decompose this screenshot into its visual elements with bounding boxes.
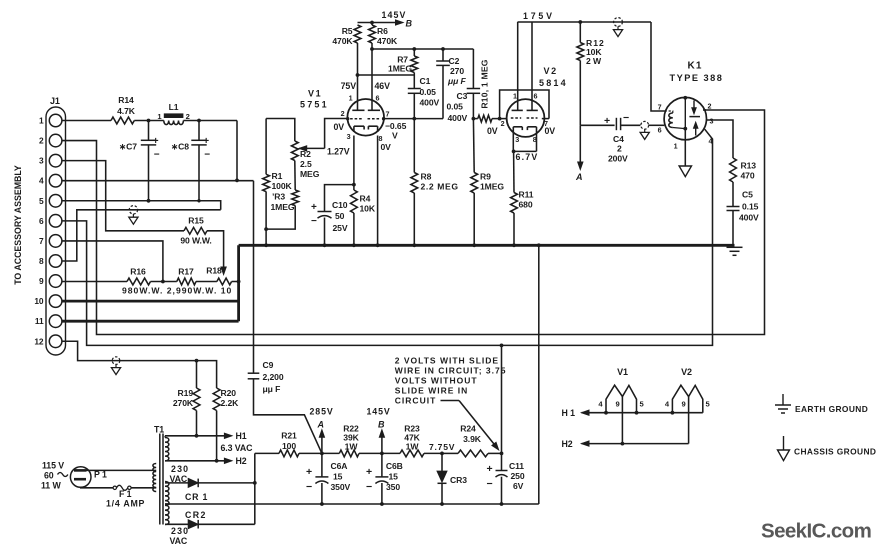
svg-text:CIRCUIT: CIRCUIT [395, 396, 436, 406]
wire y49 corner to C3 [472, 49, 474, 89]
K1 heater to center [673, 128, 686, 129]
wire H1 line [165, 436, 225, 438]
node C10 join [352, 183, 356, 187]
label R17 [178, 267, 194, 277]
label C10 50 25V [332, 200, 348, 233]
node V1 h5 on H1 [635, 411, 639, 415]
label 175V [523, 11, 555, 21]
label T1 [154, 425, 164, 435]
wire R21 left lead [255, 452, 279, 454]
svg-text:100K: 100K [272, 181, 293, 191]
label A italic [317, 420, 325, 430]
svg-text:∗C8: ∗C8 [171, 142, 189, 152]
wire y75 line [358, 74, 415, 76]
svg-text:0V: 0V [487, 126, 498, 136]
V2 plate 6 bar [527, 109, 538, 111]
svg-text:6: 6 [39, 216, 44, 226]
label B italic [378, 420, 385, 430]
wire R11 bottom lead [513, 213, 515, 245]
svg-text:C11: C11 [509, 461, 524, 471]
svg-text:H1: H1 [236, 431, 247, 441]
wire V2 pin6 riser [531, 22, 533, 110]
connector J1 outline [46, 107, 66, 355]
label L1 pin 1 [157, 112, 162, 121]
wire R21 to A node [299, 452, 322, 454]
svg-text:C1: C1 [420, 76, 431, 86]
label H1 top [236, 431, 247, 441]
svg-text:5814: 5814 [539, 78, 568, 88]
svg-text:4: 4 [709, 137, 713, 146]
node R12 top [578, 20, 582, 24]
label R4 10K [360, 194, 376, 214]
wire H1 bus lower [582, 412, 703, 414]
capacitor C4 [616, 118, 620, 130]
node C3/R10/R9 [472, 117, 476, 121]
svg-text:980W.W. 2,990W.W. 10: 980W.W. 2,990W.W. 10 [122, 286, 232, 296]
wire V2 pin7 stub [542, 118, 549, 120]
K1 contact arrow down [692, 101, 696, 114]
label R23 47K 1W [404, 424, 420, 452]
V2 plate 1 bar [512, 109, 523, 111]
chassis ground K1 pin1 [679, 166, 691, 177]
arrow to A [578, 162, 583, 170]
svg-text:R4: R4 [360, 194, 371, 204]
svg-text:12: 12 [34, 336, 44, 346]
svg-text:145V: 145V [367, 407, 391, 417]
wire CR1 anode [165, 482, 188, 484]
svg-text:0V: 0V [545, 126, 556, 136]
label CR3 [450, 475, 467, 485]
wire R19 bottom lead [196, 411, 198, 436]
wire R12 top lead [579, 22, 581, 43]
wire R7 top lead [413, 49, 415, 56]
svg-text:+: + [153, 136, 159, 147]
label 1.27V [327, 147, 350, 157]
V1 heater tents [606, 385, 637, 413]
label V1 pin6 [376, 94, 380, 103]
svg-text:−: − [204, 150, 210, 161]
node V1 h4 on H1 [604, 411, 608, 415]
svg-text:1: 1 [349, 94, 353, 103]
wire C10 bottom lead [324, 218, 326, 246]
svg-text:−: − [154, 150, 160, 161]
wire pin1 to R14 [62, 120, 111, 122]
svg-text:50: 50 [335, 211, 345, 221]
capacitor C2 [436, 61, 450, 65]
V2 cathode bracket [513, 132, 536, 151]
svg-text:V1: V1 [308, 89, 322, 99]
label CHASSIS GROUND [794, 447, 876, 457]
label V2 pin2 [501, 119, 505, 128]
capacitor C11 lead [501, 453, 503, 470]
wire 145V line [358, 22, 400, 24]
label V2 pin6 [534, 92, 538, 101]
chassis ground legend symbol [778, 436, 790, 461]
node V2 h4 on H1 [671, 411, 675, 415]
V1 plate 6 bar [368, 109, 380, 111]
wire V1 pin8 lead [377, 136, 379, 246]
svg-text:8: 8 [39, 256, 44, 266]
node R8 on bus [412, 243, 416, 247]
svg-text:0.05: 0.05 [420, 87, 437, 97]
svg-text:4.7K: 4.7K [117, 106, 136, 116]
resistor R14 [111, 117, 134, 124]
svg-text:−: − [311, 216, 317, 227]
svg-text:7: 7 [658, 103, 662, 112]
K1 heater coil [669, 113, 673, 128]
resistor R10 [478, 115, 492, 122]
node R7 line on R5 lead [356, 73, 360, 77]
label V1 [308, 89, 322, 99]
ground bus heavy [239, 244, 735, 247]
wire B to R23 [382, 452, 400, 454]
label V1 pin2 [341, 109, 345, 118]
wire C9 to node A [254, 379, 322, 454]
V2 cathode 8 bar [527, 127, 536, 132]
node CR1 CR2 junction [253, 481, 257, 485]
label R16 [130, 267, 146, 277]
svg-text:R20: R20 [221, 388, 237, 398]
label C6B minus [366, 481, 372, 493]
wire H2 bus lower [582, 443, 689, 445]
resistor R24 [458, 450, 488, 457]
label R19 270K [173, 388, 194, 408]
tube V1 envelope [347, 99, 384, 136]
label C4 2 200V [608, 134, 628, 164]
svg-text:2.2 MEG: 2.2 MEG [421, 182, 459, 192]
svg-text:350V: 350V [331, 482, 351, 492]
svg-text:15: 15 [333, 472, 343, 482]
wire K1 pin2 stub [703, 109, 706, 111]
label TO ACCESSORY ASSEMBLY [13, 165, 23, 285]
potentiometer R2 [291, 141, 298, 161]
note arrow to C11 node [459, 401, 499, 450]
note line4 [395, 386, 468, 396]
wire C6B bottom [381, 483, 383, 504]
wire pin12 route [62, 341, 217, 388]
svg-text:400V: 400V [420, 98, 440, 108]
wire pin3 to R15 [62, 161, 184, 231]
wire C8 lower lead [197, 145, 200, 203]
capacitor C6B [375, 477, 388, 484]
V2 cathode 3 bar [513, 127, 522, 132]
svg-text:WIRE IN CIRCUIT; 3.75: WIRE IN CIRCUIT; 3.75 [395, 366, 507, 376]
svg-text:2 VOLTS WITH SLIDE: 2 VOLTS WITH SLIDE [395, 356, 499, 366]
svg-text:R5: R5 [342, 26, 353, 36]
svg-text:∗C7: ∗C7 [119, 142, 137, 152]
label 75V [341, 81, 357, 91]
svg-text:285V: 285V [310, 407, 334, 417]
label V1 pin3 [347, 132, 351, 141]
label C10 plus [311, 202, 317, 213]
wire y49 line [372, 48, 473, 50]
label C5 0.15 400V [739, 190, 759, 223]
svg-text:R13: R13 [741, 161, 757, 171]
wire R6 to V1 pin6 [371, 43, 373, 110]
svg-text:C6B: C6B [386, 461, 403, 471]
wire C11 bottom [501, 477, 503, 504]
wire K1 pin3 to R13 [706, 120, 733, 158]
wire CR2 to junction [198, 523, 255, 525]
svg-text:R1: R1 [272, 171, 283, 181]
resistor R11 [511, 193, 518, 214]
svg-text:+: + [306, 466, 312, 478]
label L1 [169, 102, 179, 112]
label V1 h9 [616, 400, 620, 409]
label H2 lower [562, 439, 573, 449]
node V1 pin8 on bus [376, 243, 380, 247]
svg-text:R8: R8 [421, 172, 432, 182]
label K1 pin3 [710, 117, 714, 126]
bottom rail [165, 503, 539, 505]
wire R22 to B node [359, 452, 382, 454]
node V2 grid [498, 117, 502, 121]
note line2 [395, 366, 507, 376]
diode CR2 [188, 520, 198, 529]
wire bus to rail drop [538, 245, 540, 504]
resistor R18 [217, 278, 232, 285]
wire pin8 line [62, 210, 221, 261]
capacitor C9 [248, 373, 260, 379]
capacitor C6B lead [381, 453, 383, 477]
node pin7 joins R16-R17 [161, 280, 165, 284]
V2 grid bracket [500, 90, 549, 119]
wire C2 bottom lead [442, 65, 444, 118]
wire R9 top lead [472, 119, 475, 173]
wire V2 pin2 stub [500, 118, 507, 120]
wire A arrow drop [579, 125, 581, 164]
wire primary top lead [87, 469, 157, 471]
label R13 470 [741, 161, 757, 181]
wire pin5 line [62, 201, 221, 210]
label V2 h9 [682, 400, 686, 409]
svg-text:R17: R17 [178, 267, 194, 277]
svg-text:75V: 75V [341, 81, 357, 91]
wire R3 bottom to R1 [266, 206, 295, 230]
svg-text:R6: R6 [377, 26, 388, 36]
label C8 plus [203, 136, 209, 147]
connector J1 pin numbers [34, 116, 44, 347]
svg-text:R18: R18 [206, 266, 222, 276]
wire R23 to CR3 node [424, 452, 442, 454]
heavy wire pin10 [62, 300, 239, 303]
wire R17 to R18 [196, 281, 217, 283]
node R20 bottom [215, 459, 219, 463]
secondary 230V winding [165, 482, 169, 525]
label C6A minus [306, 481, 312, 493]
label R2 2.5 MEG [300, 149, 320, 179]
svg-text:V2: V2 [681, 367, 692, 377]
label H2 top [236, 456, 247, 466]
resistor R4 [351, 190, 358, 213]
arrow H2 lower [582, 441, 590, 446]
label 230 VAC lower [170, 526, 190, 546]
label 145V lower [367, 407, 391, 417]
node V2 cathode [512, 150, 516, 154]
svg-text:+: + [366, 466, 372, 478]
label 980W.W. 2,990W.W. 10 [122, 286, 232, 296]
svg-text:A: A [575, 172, 583, 182]
note line5 [395, 396, 436, 406]
label K1 pin2 [708, 102, 712, 111]
label L1 pin 2 [186, 112, 190, 121]
wire CR junction to R21 [254, 453, 256, 524]
node R18 on heavy vertical [237, 280, 241, 284]
svg-text:3: 3 [710, 117, 714, 126]
wire pin6 to K1 pin4 route [62, 129, 713, 345]
svg-text:B: B [378, 420, 385, 430]
capacitor C10 electrolytic [318, 212, 332, 219]
label R15 [188, 216, 204, 226]
label V2 h4 [665, 400, 670, 409]
label V2 pin3 [515, 135, 519, 144]
capacitor C1 [408, 89, 421, 94]
svg-text:TO ACCESSORY ASSEMBLY: TO ACCESSORY ASSEMBLY [13, 165, 23, 285]
wire cathode to R11 [513, 151, 515, 192]
shield ground on pin12 wire [111, 357, 120, 375]
label 145V top [382, 10, 407, 20]
primary coil [153, 464, 156, 492]
label K1 pin1 [674, 142, 678, 151]
shield ground on C4 line [640, 121, 649, 139]
diode CR3 [437, 453, 447, 504]
wire R1top to R2top [266, 119, 295, 142]
svg-text:−: − [306, 481, 312, 493]
wire A to R22 [322, 452, 339, 454]
label 230 VAC upper [170, 464, 190, 484]
label R22 39K 1W [343, 424, 359, 452]
label P1 [94, 470, 107, 480]
label C3 0.05 400V [447, 91, 468, 123]
label R14 4.7K [117, 95, 136, 116]
wire pin2 to K1 pin2 route [62, 110, 765, 335]
label -0.65 V [385, 121, 407, 141]
svg-text:+: + [487, 463, 493, 475]
svg-text:2 W: 2 W [586, 56, 602, 66]
svg-text:6: 6 [658, 126, 662, 135]
wire fuse to primary [131, 487, 156, 489]
wire plug bottom lead [81, 486, 114, 489]
svg-text:K1: K1 [688, 61, 703, 72]
fuse F1 [113, 485, 131, 490]
svg-text:1W: 1W [406, 442, 420, 452]
label 5751 [300, 100, 329, 110]
label V2 [544, 66, 558, 76]
svg-text:R14: R14 [118, 95, 134, 105]
wire R4 bottom lead [353, 213, 355, 245]
svg-text:−0.65: −0.65 [385, 121, 407, 131]
label *C8 [171, 142, 189, 152]
wire V1 pin7 line [383, 118, 443, 120]
label R18 [206, 266, 222, 276]
arrow H2 [224, 458, 232, 463]
wire C4 line right [621, 124, 641, 126]
capacitor C6A [315, 477, 328, 484]
label 115V [42, 461, 64, 471]
wire C7 upper lead [148, 121, 150, 141]
svg-text:8: 8 [379, 134, 383, 143]
node R19 bottom [195, 434, 199, 438]
node C10 on bus [323, 243, 327, 247]
wire CR2 anode [165, 523, 188, 525]
svg-text:C5: C5 [742, 190, 753, 200]
svg-text:0.05: 0.05 [447, 102, 464, 112]
svg-text:7.75V: 7.75V [429, 442, 455, 452]
svg-text:90 W.W.: 90 W.W. [180, 236, 211, 246]
label V2 heater [681, 367, 692, 377]
svg-text:C2: C2 [449, 56, 460, 66]
svg-text:1MEG: 1MEG [271, 202, 295, 212]
svg-text:250: 250 [511, 471, 525, 481]
svg-text:25V: 25V [333, 223, 348, 233]
label C9 [263, 360, 274, 370]
svg-text:470: 470 [741, 171, 755, 181]
label 11W [41, 481, 61, 491]
svg-text:−: − [623, 112, 629, 124]
svg-text:4: 4 [39, 176, 44, 186]
svg-text:6: 6 [376, 94, 380, 103]
resistor R6 [369, 25, 376, 43]
svg-text:11: 11 [35, 316, 44, 326]
svg-text:V1: V1 [617, 367, 628, 377]
label R7 1MEG [388, 55, 412, 74]
capacitor C5 [727, 207, 740, 211]
svg-text:H 1: H 1 [562, 408, 576, 418]
wire 175V rail [518, 21, 652, 23]
label CR2 [185, 510, 207, 520]
resistor R21 [279, 450, 299, 457]
label 46V [375, 81, 391, 91]
svg-text:400V: 400V [739, 213, 759, 223]
plug P1 [70, 467, 91, 488]
wire C3 node to R10 [473, 118, 477, 120]
note line1 [395, 356, 499, 366]
svg-text:A: A [317, 420, 325, 430]
wire pin4 horizontal [62, 180, 254, 182]
label V1 pin7 [386, 110, 390, 119]
svg-text:3: 3 [39, 156, 44, 166]
wire R13 to C5 [732, 182, 734, 207]
label V1 pin8 [379, 134, 383, 143]
label TYPE 388 [670, 73, 724, 83]
label C9 2200 [263, 372, 284, 382]
resistor R16 [127, 278, 151, 285]
resistor R9 [471, 173, 478, 194]
label R5 470K [332, 26, 353, 46]
V1 cathode 8 bar [368, 126, 377, 132]
wire center tap [165, 503, 170, 505]
svg-text:+: + [311, 202, 317, 213]
node R4 on bus [352, 243, 356, 247]
wire rail corner to K1 pin7 [651, 22, 665, 111]
arrow H1 [224, 433, 232, 438]
V2 grid dashes [511, 117, 538, 119]
node R11 on bus [512, 243, 516, 247]
wire R1 top riser [265, 119, 267, 175]
label A flag [575, 172, 583, 182]
svg-text:−: − [366, 481, 372, 493]
label V1 pin2 0V [333, 122, 344, 132]
label C6B plus [366, 466, 372, 478]
arrow A up [319, 430, 324, 454]
wire C8 upper lead [198, 121, 200, 141]
svg-text:2: 2 [341, 109, 345, 118]
V1 grid dashes [346, 117, 385, 120]
resistor R23 [400, 450, 424, 457]
svg-text:’R3: ’R3 [272, 192, 285, 202]
wire R14 to L1 [134, 120, 164, 122]
wire R18 to bus [232, 281, 239, 283]
